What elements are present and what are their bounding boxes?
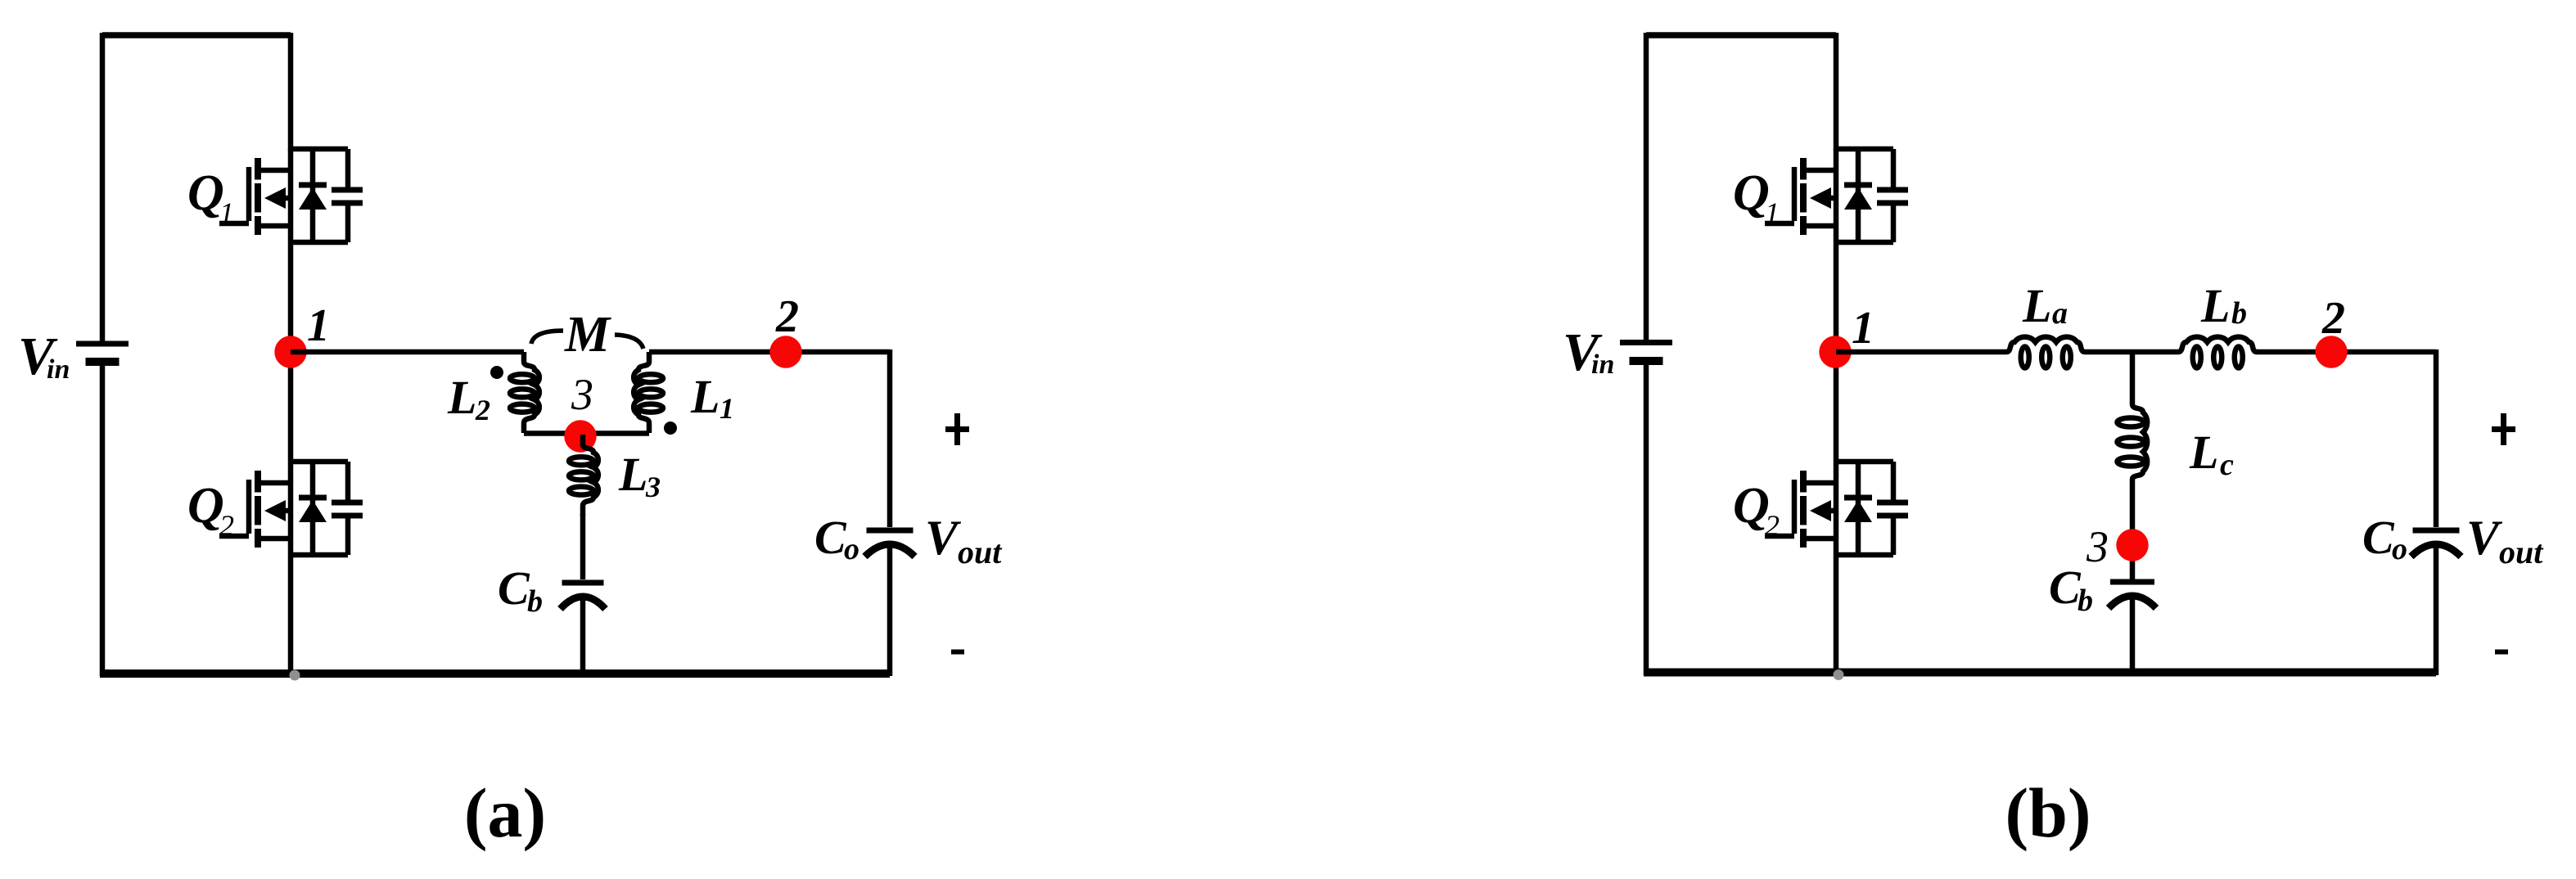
capacitor Co (a), output capacitor [865,530,915,557]
svg-text:b: b [2077,584,2093,618]
wire: Cb to bottom rail (b) [2130,599,2136,675]
svg-text:in: in [1591,349,1614,380]
wire: bottom rail / ground return of circuit (a) [100,669,890,678]
svg-text:V: V [925,511,962,565]
svg-text:L: L [690,370,720,423]
wire: Co to bottom rail (b) [2434,548,2439,675]
svg-text:V: V [2466,511,2503,565]
svg-text:C: C [498,561,530,615]
wire: Cb to bottom rail (a) [580,600,586,676]
inductor La (b) [2006,337,2085,368]
battery Vin (a): long positive plate [76,341,129,347]
wire: drain lead from top rail to Q1 (b) [1834,33,1839,151]
wire: left rail below battery Vin (a) [100,366,106,676]
coupling arc right of M (a) [615,335,643,349]
battery Vin (b): short negative plate [1630,357,1663,365]
transistor Q2 (a) body arrow (pointing into channel) [264,500,291,521]
capacitor Cb (a), blocking capacitor [561,583,606,609]
wire: drain lead from top rail to Q1 (a) [288,33,294,151]
svg-text:L: L [447,371,476,424]
node 1 (a): red junction dot [274,336,306,367]
wire: bottom rail / ground return of circuit (b) [1644,669,2436,677]
junction: gray dot at Q2 source / bottom rail (a) [290,670,300,681]
svg-text:M: M [564,307,611,363]
svg-text:1: 1 [720,392,734,425]
transistor Q2 (b) body arrow (pointing into channel) [1810,500,1836,521]
label - output polarity (b) [2495,650,2508,655]
parasitic capacitor of Q1 (a) [332,149,363,242]
inductor winding L1 (a), coupled secondary (mirrored) [634,352,663,433]
svg-text:o: o [2392,532,2407,566]
capacitor Cb (b), blocking capacitor [2109,582,2156,608]
wire: bottom rail joining L2 and L1 at node 3 (a) [524,430,649,436]
svg-text:b: b [2231,296,2247,331]
body diode of Q1 (a) (anode bottom, cathode bar top) [299,149,327,242]
wire: Q1 source to node 1 (b) [1834,242,1839,352]
svg-text:c: c [2220,448,2234,482]
svg-text:C: C [814,511,847,564]
wire: Co to bottom rail (a) [887,548,893,676]
body diode of Q1 (b) (anode bottom, cathode bar top) [1844,149,1872,242]
svg-text:1: 1 [1852,303,1874,354]
label - output polarity (a) [951,650,964,655]
svg-text:3: 3 [645,471,661,503]
svg-text:2: 2 [475,394,490,426]
svg-text:1: 1 [1765,196,1780,229]
wire: left rail above battery Vin (b) [1644,33,1649,340]
wire: La to T junction and inductor Lb (b) [2085,349,2178,355]
wire: L3 to capacitor Cb (a) [580,514,586,579]
svg-text:C: C [2362,511,2395,564]
svg-text:2: 2 [2321,293,2345,344]
polarity dot of L2 (a) [490,366,503,379]
wire: Q2 source to bottom rail (a) [288,555,294,676]
transistor Q1 (b) channel, gate bar and gate lead [1765,158,1836,235]
wire: node 1 to winding L2 (a) [291,349,524,355]
svg-text:L: L [2022,279,2051,332]
capacitor Co (b), output capacitor [2411,530,2461,557]
wire: node 1 to inductor La (b) [1836,349,2006,355]
svg-text:(a): (a) [464,773,546,852]
svg-text:b: b [527,584,543,619]
svg-text:in: in [47,354,70,385]
coupling arc left of M (a) [531,331,563,344]
wire: Lb to node 2 and output corner (b) [2257,349,2436,355]
svg-text:2: 2 [1765,509,1780,542]
wire: Q2 source to bottom rail (b) [1834,555,1839,675]
inductor L3 (a) leakage winding below node 3 [569,435,598,516]
node 3 (b): red junction dot [2116,529,2148,561]
node 2 (a): red junction dot [769,336,801,367]
parasitic capacitor of Q2 (a) [332,462,363,555]
transistor Q2 (b) channel, gate bar and gate lead [1765,471,1836,548]
wire: output right rail from node 2 down to Co (a) [887,349,893,527]
svg-text:o: o [844,532,859,566]
svg-text:3: 3 [2086,522,2109,571]
wire: Q1 source to node 1 (a) [288,242,294,352]
wire: left rail above battery Vin (a) [100,33,106,341]
svg-text:a: a [2052,296,2068,331]
body diode of Q2 (a) (anode bottom, cathode bar top) [299,462,327,555]
svg-text:1: 1 [307,300,330,351]
inductor winding L2 (a), coupled primary [510,352,539,433]
transistor Q2 (b) MOSFET drain-source vertical and parallel-branch rails [1836,462,1893,555]
transistor Q1 (b) MOSFET drain-source vertical and parallel-branch rails [1836,149,1893,242]
polarity dot of L1 (a) [664,421,677,435]
svg-text:L: L [2200,279,2230,332]
svg-text:out: out [2499,534,2544,570]
svg-text:(b): (b) [2005,773,2091,852]
transistor Q1 (a) channel, gate bar and gate lead [219,158,291,235]
transistor Q2 (a) MOSFET drain-source vertical and parallel-branch rails [291,462,348,555]
svg-text:out: out [958,534,1003,570]
label + output polarity (a) [945,413,969,445]
node 3 (a): red junction dot [564,420,596,452]
transistor Q1 (a) body arrow (pointing into channel) [264,187,291,209]
node 2 (b): red junction dot [2315,336,2347,367]
parasitic capacitor of Q1 (b) [1877,149,1908,242]
svg-text:C: C [2049,561,2082,614]
wire: left rail below battery Vin (b) [1644,365,1649,675]
wire: top rail of circuit (a) input loop [102,32,291,38]
wire: top rail of circuit (b) input loop [1646,32,1836,38]
wire: node 1 to Q2 drain (a) [288,352,294,462]
wire: node 1 to Q2 drain (b) [1834,352,1839,462]
inductor Lc (b) on shunt branch below T junction [2118,352,2148,579]
wire: L1 to node 2 and output corner (a) [649,349,890,355]
inductor Lb (b) [2178,337,2257,368]
svg-text:2: 2 [775,291,799,342]
transistor Q1 (b) body arrow (pointing into channel) [1810,187,1836,209]
node 1 (b): red junction dot [1819,336,1851,367]
parasitic capacitor of Q2 (b) [1877,462,1908,555]
svg-text:L: L [2189,426,2218,479]
junction: gray dot at Q2 source / bottom rail (b) [1834,669,1844,680]
transistor Q2 (a) channel, gate bar and gate lead [219,471,291,548]
body diode of Q2 (b) (anode bottom, cathode bar top) [1844,462,1872,555]
label + output polarity (b) [2492,413,2515,445]
svg-text:1: 1 [219,196,234,229]
wire: output right rail from node 2 down to Co (b) [2434,349,2439,527]
transistor Q1 (a) MOSFET drain-source vertical and parallel-branch rails [291,149,348,242]
svg-text:3: 3 [571,370,593,419]
svg-text:L: L [618,448,647,501]
battery Vin (b): long positive plate [1620,340,1672,345]
battery Vin (a): short negative plate [86,358,120,366]
svg-text:2: 2 [219,509,234,542]
